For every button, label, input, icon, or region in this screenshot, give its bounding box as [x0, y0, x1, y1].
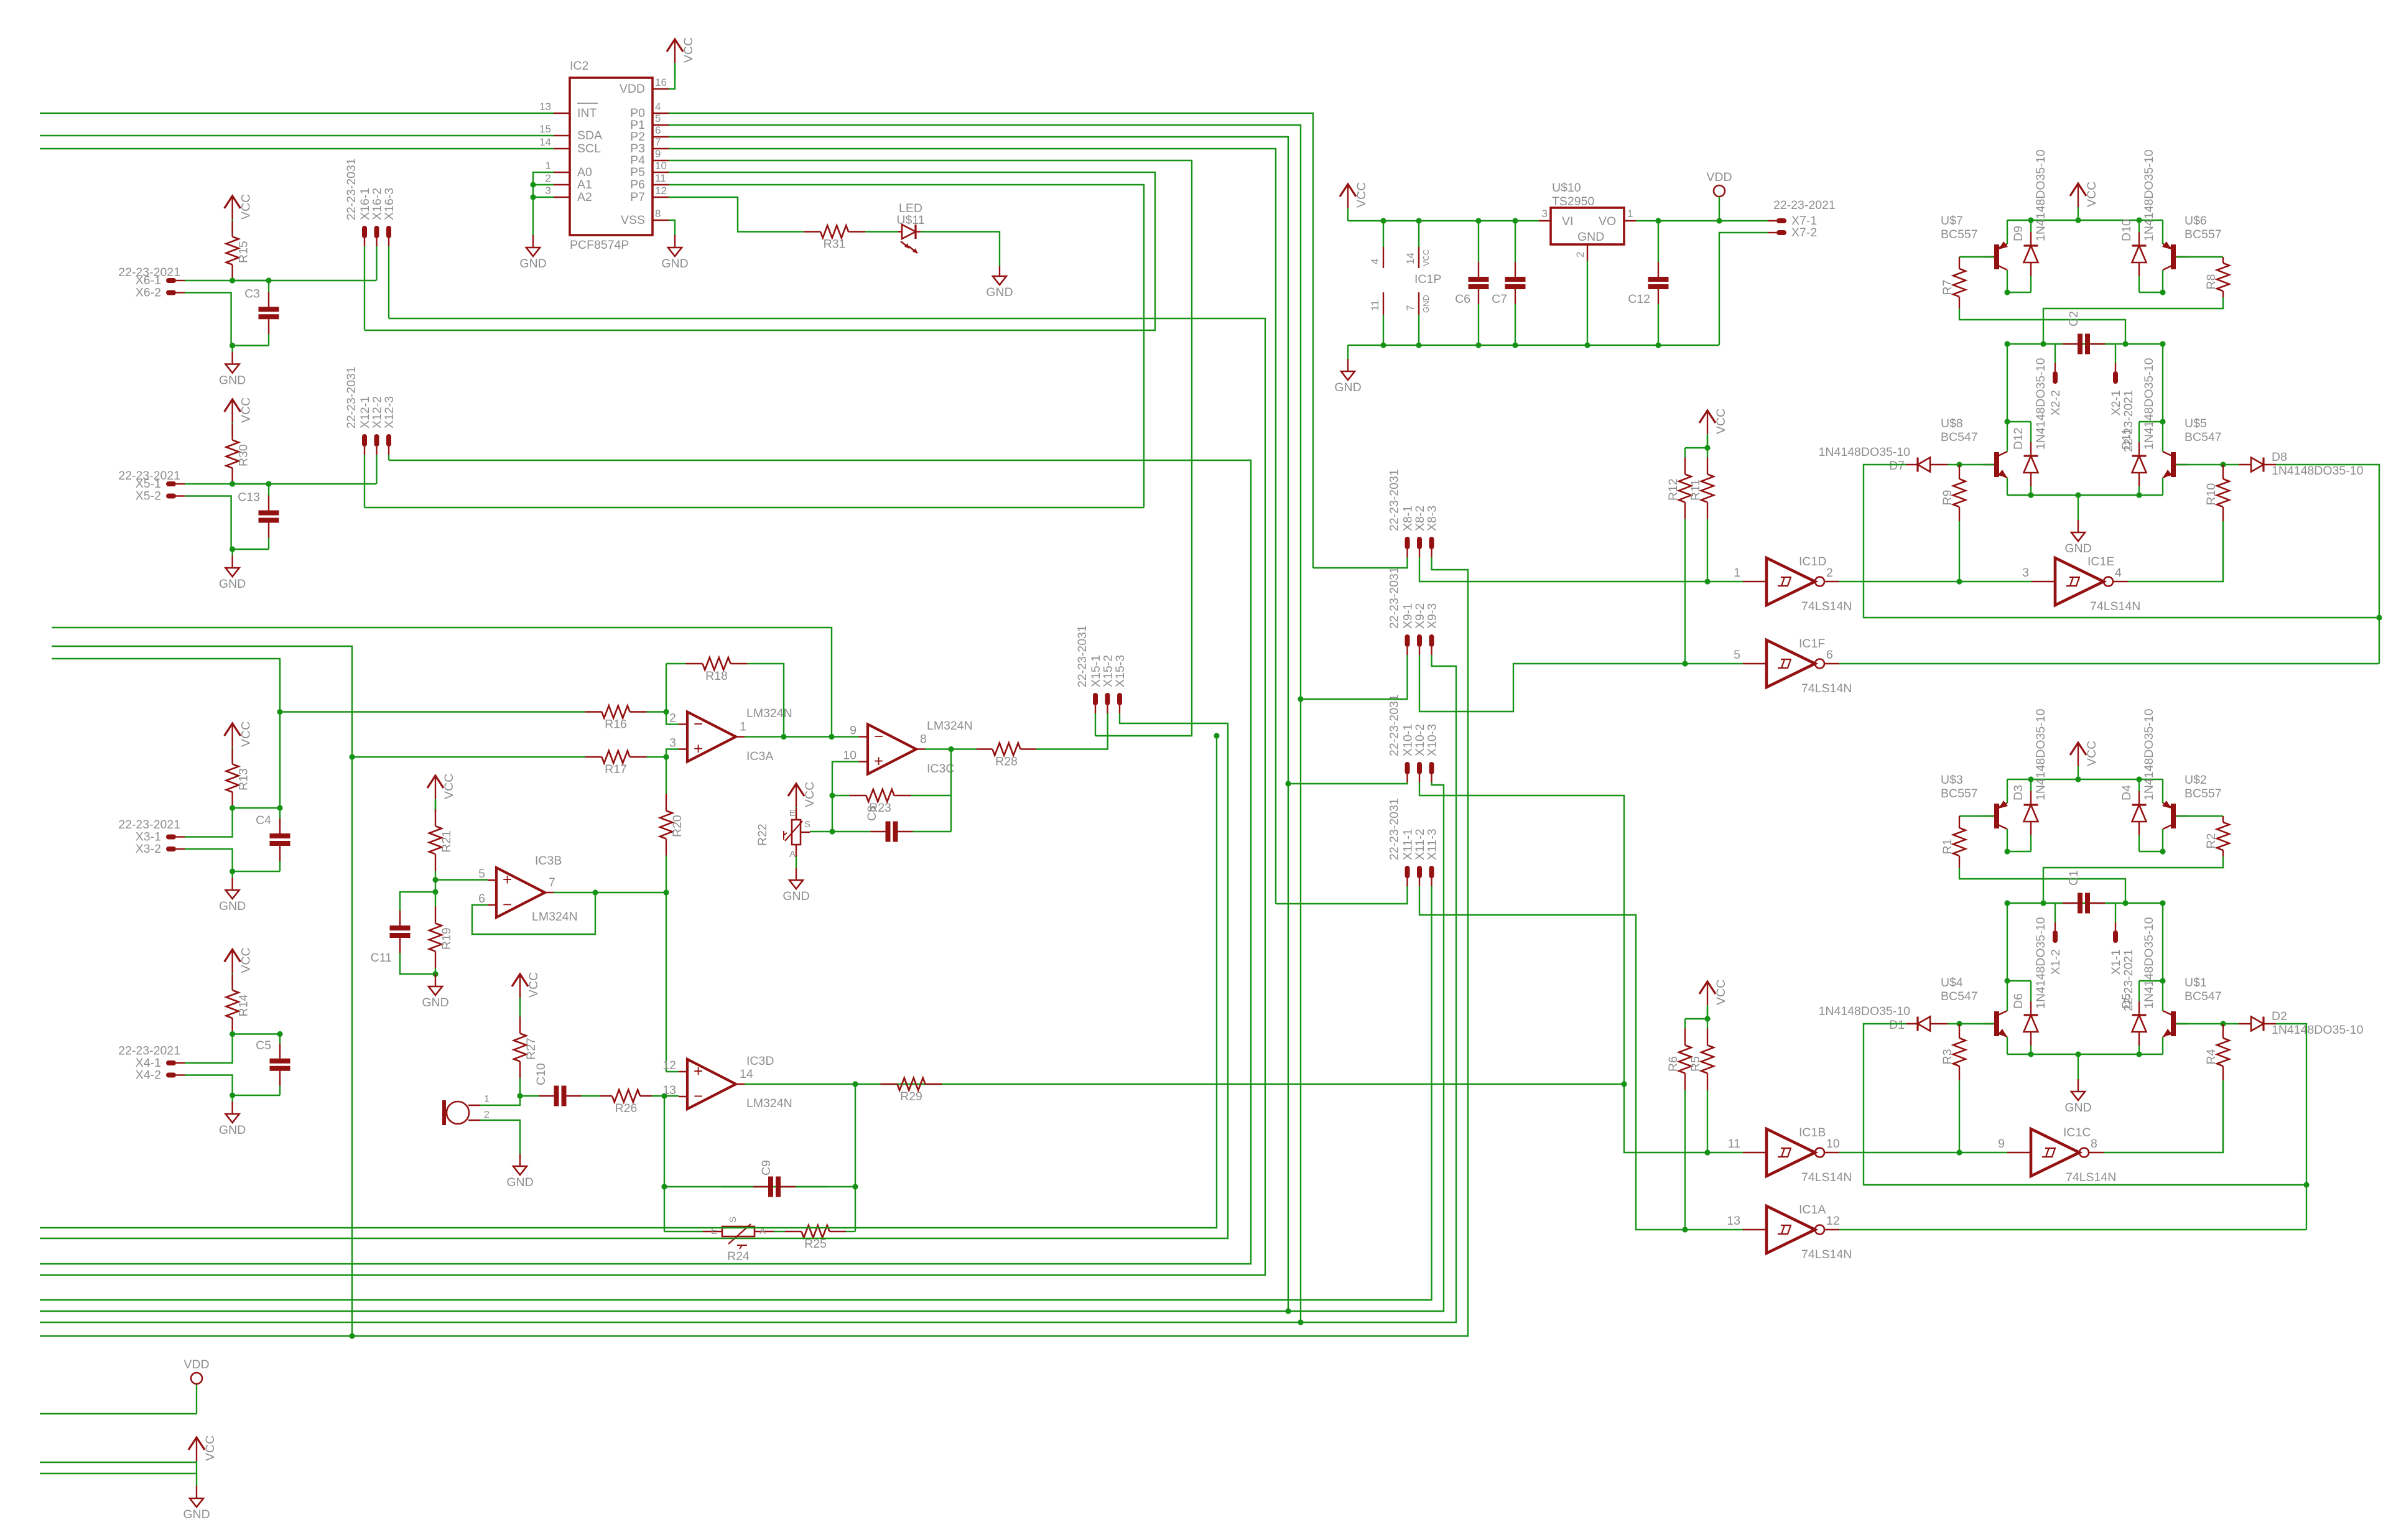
wire X3-2 to gnd: [185, 849, 233, 871]
svg-text:P5: P5: [630, 165, 645, 179]
wire X10-2 to IC1B: [1419, 782, 1743, 1153]
power VCC X4 block: [225, 950, 241, 962]
svg-text:−: −: [874, 727, 883, 746]
svg-text:C12: C12: [1628, 292, 1650, 306]
connector X15 pin X15-1: [1093, 693, 1098, 705]
svg-text:X7-2: X7-2: [1791, 226, 1817, 239]
connector X3-1: [166, 835, 176, 840]
svg-text:IC1C: IC1C: [2063, 1126, 2091, 1139]
wire R10 leg: [2222, 521, 2224, 582]
junction P1 X9-1: [1298, 696, 1303, 702]
junction R21 pin5: [432, 877, 438, 883]
junction bottom low rail: [2136, 1051, 2142, 1057]
connector X12 pin X12-3: [386, 434, 391, 447]
wire IC1A out: [1839, 1229, 2306, 1230]
svg-text:BC557: BC557: [2185, 228, 2222, 241]
svg-text:12: 12: [1826, 1214, 1840, 1228]
resistor R14: [226, 990, 239, 1018]
U$10 pin 1: [1624, 220, 1636, 221]
wire X9-2 to IC1F: [1419, 655, 1743, 712]
wire gnd rail: [1348, 345, 1719, 346]
svg-text:22-23-2021: 22-23-2021: [1773, 198, 1836, 212]
svg-text:C4: C4: [256, 814, 271, 827]
wire out col down: [855, 1084, 856, 1232]
capacitor C11: [390, 928, 411, 935]
resistor R12: [1679, 475, 1691, 503]
svg-text:D6: D6: [2012, 993, 2025, 1009]
svg-text:R25: R25: [804, 1237, 827, 1251]
ground GND top bridge: [2078, 495, 2079, 520]
wire R16 to in-: [647, 711, 666, 712]
svg-text:22-23-2031: 22-23-2031: [1388, 798, 1401, 860]
connector X2-2: [2055, 363, 2056, 371]
svg-text:1: 1: [740, 720, 746, 734]
transistor U$6 PNP: [2171, 244, 2176, 269]
junction R29 left: [852, 1081, 858, 1087]
junction bottom c2 r: [2160, 900, 2165, 906]
svg-text:R2: R2: [2204, 833, 2218, 849]
junction top rail D9 top: [2028, 217, 2033, 223]
wire R9 leg: [1959, 521, 1960, 582]
wire bottom U$1 emitter: [2162, 1037, 2163, 1054]
svg-text:U$5: U$5: [2185, 417, 2207, 430]
U$10 pin 2: [1587, 244, 1588, 261]
junction col566 bus: [349, 1333, 355, 1338]
junction R5 bottom: [1704, 1149, 1710, 1155]
wire top left col row: [2007, 292, 2031, 293]
junction X5 gnd node: [230, 546, 235, 552]
svg-text:5: 5: [655, 113, 661, 124]
junction top left col: [2004, 289, 2010, 295]
wire IC3C out: [925, 748, 977, 749]
resistor R21: [429, 826, 442, 854]
svg-text:14: 14: [1405, 253, 1416, 264]
svg-text:R4: R4: [2204, 1049, 2218, 1064]
wire C13 bottom to gnd node: [233, 549, 269, 550]
wire net SDA: [40, 135, 554, 136]
svg-text:8: 8: [655, 208, 661, 220]
connector X11 pin X11-2: [1417, 866, 1422, 878]
wire node to C5: [233, 1033, 280, 1034]
IC2 pin 13 INT: [554, 113, 570, 114]
junction A2: [530, 194, 536, 200]
wire bottom right col mid: [2162, 903, 2163, 981]
wire R4 leg: [2222, 1080, 2224, 1153]
ground GND LED: [999, 266, 1000, 276]
op IC2 block: [539, 59, 669, 252]
wire IC2 VDD to VCC: [669, 64, 675, 89]
svg-text:VCC: VCC: [803, 782, 817, 807]
connector X6-2: [166, 290, 176, 295]
power VCC X6 block: [225, 196, 241, 208]
svg-text:INT: INT: [577, 106, 597, 120]
svg-text:D10: D10: [2120, 219, 2134, 241]
svg-text:BC547: BC547: [2185, 430, 2222, 444]
svg-text:GND: GND: [519, 257, 546, 271]
junction bottom R4 top: [2220, 1021, 2226, 1026]
IC2 pin 12 P7: [652, 197, 669, 198]
svg-text:−: −: [694, 715, 703, 733]
svg-text:VCC: VCC: [442, 774, 456, 799]
ground GND IC2 VSS: [674, 230, 676, 235]
IC2 pin 15 SDA: [554, 135, 570, 136]
capacitor C4: [270, 836, 290, 843]
svg-text:7: 7: [1405, 305, 1416, 311]
svg-text:LM324N: LM324N: [746, 1097, 792, 1110]
connector X3-2: [166, 847, 176, 851]
svg-text:X16-3: X16-3: [383, 188, 396, 220]
svg-text:LM324N: LM324N: [532, 910, 578, 924]
wire pin5: [435, 879, 488, 880]
wire bottom base to d8: [2223, 1023, 2239, 1024]
wire C11 bottom: [400, 958, 435, 974]
junction bottom low rail: [2028, 1051, 2033, 1057]
IC2 pin 14 SCL: [554, 148, 570, 149]
svg-text:IC3A: IC3A: [746, 749, 773, 763]
junction top R10 top: [2220, 462, 2226, 467]
wire bottom U$2 base: [2176, 815, 2223, 817]
wire C11 branch top: [400, 892, 435, 906]
svg-text:VCC: VCC: [1421, 249, 1431, 266]
svg-text:VDD: VDD: [183, 1358, 209, 1371]
resistor R29: [898, 1078, 926, 1090]
svg-text:GND: GND: [422, 996, 448, 1009]
capacitor C6: [1469, 279, 1489, 287]
junction top low rail: [2075, 492, 2081, 498]
IC2 pin 4 P0: [652, 113, 669, 114]
junction C7 top: [1512, 218, 1518, 223]
svg-text:C2: C2: [2067, 311, 2081, 327]
svg-text:IC1P: IC1P: [1414, 272, 1441, 286]
svg-text:LM324N: LM324N: [927, 719, 973, 733]
svg-text:9: 9: [850, 724, 857, 738]
svg-text:2: 2: [1574, 252, 1586, 257]
IC1P pin 4: [1383, 221, 1384, 247]
svg-text:X4-2: X4-2: [136, 1069, 161, 1082]
svg-text:IC1E: IC1E: [2087, 555, 2114, 568]
connector X5-1: [166, 481, 176, 486]
ground GND X6 block: [231, 346, 233, 352]
svg-text:6: 6: [655, 124, 661, 136]
svg-text:VCC: VCC: [239, 947, 253, 973]
svg-text:IC1B: IC1B: [1799, 1126, 1826, 1139]
wire in+ jog: [666, 749, 679, 758]
capacitor C5: [270, 1061, 290, 1069]
connector X9 pin X9-2: [1417, 634, 1422, 647]
junction top rail D10 top: [2136, 217, 2142, 223]
svg-text:X12-3: X12-3: [383, 396, 396, 429]
trimmer R24: [722, 1227, 755, 1236]
IC2 pin 2 A1: [554, 184, 570, 185]
svg-text:IC1F: IC1F: [1799, 637, 1825, 651]
wire IC3B feedback loop: [472, 893, 595, 934]
junction R16 node: [277, 709, 282, 715]
wire node to C13: [233, 483, 269, 485]
diode D4: [2132, 805, 2147, 822]
wire X16-3 down: [388, 246, 389, 318]
wire C3 bottom to gnd node: [233, 345, 269, 346]
wire net X9-3: [40, 655, 1456, 1322]
svg-text:D1: D1: [1889, 1018, 1905, 1032]
svg-text:GND: GND: [1334, 381, 1361, 394]
power VCC R21: [427, 776, 443, 788]
junction IC3C out col: [948, 746, 954, 752]
svg-text:VCC: VCC: [239, 194, 253, 220]
connector X6-1: [166, 278, 176, 283]
capacitor C9: [771, 1177, 778, 1197]
wire net SCL: [40, 148, 554, 149]
resistor R4: [2217, 1038, 2229, 1066]
power VCC bottom bridge: [2070, 743, 2086, 755]
svg-text:A2: A2: [577, 190, 592, 204]
svg-text:1N4148DO35-10: 1N4148DO35-10: [2142, 358, 2156, 450]
svg-text:C8: C8: [865, 805, 879, 821]
wire net X15-3: [40, 713, 1228, 1238]
svg-text:U$3: U$3: [1941, 773, 1963, 787]
capacitor C10: [557, 1086, 564, 1106]
resistor R15: [226, 237, 239, 265]
svg-text:VCC: VCC: [2085, 741, 2099, 766]
wire top lower rail: [2007, 494, 2163, 496]
svg-text:VSS: VSS: [621, 213, 645, 227]
ground GND R22: [796, 856, 797, 868]
wire pin10 left: [832, 762, 859, 832]
wire R25 right: [846, 1231, 855, 1232]
junction C4 top: [277, 805, 282, 810]
svg-text:SDA: SDA: [577, 129, 602, 142]
svg-text:R10: R10: [2204, 483, 2218, 506]
diode D6: [2024, 1015, 2038, 1032]
wire bottom d7 feedback: [1864, 1024, 2306, 1185]
svg-text:VDD: VDD: [1706, 170, 1732, 184]
junction X6 node: [230, 277, 235, 283]
junction U$10 gnd rail: [1584, 342, 1590, 348]
wire net VDD line: [40, 1413, 197, 1414]
junction pin13 node: [661, 1093, 667, 1098]
svg-text:GND: GND: [1421, 295, 1431, 313]
transistor U$2 PNP: [2171, 804, 2176, 828]
svg-text:−: −: [503, 895, 512, 914]
power VCC IC2: [667, 39, 683, 52]
wire R18 left: [666, 663, 680, 664]
resistor R18: [703, 657, 731, 670]
wire X12-1 net: [365, 507, 1144, 508]
wire X3-1 to node: [185, 808, 233, 837]
svg-text:D9: D9: [2012, 226, 2025, 241]
wire net bus row1974: [40, 736, 1217, 1228]
svg-text:+: +: [874, 752, 883, 771]
wire top right col row: [2139, 292, 2163, 293]
svg-text:+: +: [694, 740, 703, 758]
wire top top rail: [2007, 220, 2163, 221]
junction R19 bottom: [432, 971, 438, 976]
svg-text:R27: R27: [524, 1037, 538, 1060]
svg-text:IC3D: IC3D: [746, 1054, 774, 1068]
svg-text:GND: GND: [986, 285, 1013, 299]
svg-text:U$1: U$1: [2185, 976, 2207, 990]
wire mic pin2: [480, 1120, 520, 1148]
resistor R2: [2217, 822, 2229, 850]
junction R11 bottom: [1704, 578, 1710, 584]
wire U$10 gnd: [1587, 261, 1588, 345]
wire net X16-3: [40, 318, 1265, 1275]
wire X16-1 down: [364, 246, 365, 330]
connector X11 pin X11-3: [1429, 866, 1434, 878]
wire bottom U$1 collector: [2162, 981, 2163, 1011]
power VCC R27: [512, 974, 528, 986]
transistor U$7 PNP: [1994, 244, 1999, 269]
svg-text:BC547: BC547: [1941, 430, 1978, 444]
junction bottom d12 l: [2004, 978, 2010, 983]
svg-text:2: 2: [484, 1110, 490, 1120]
wire bottom d11 row: [2139, 980, 2163, 981]
resistor R7: [1953, 269, 1966, 297]
resistor R5: [1701, 1046, 1714, 1074]
junction IC3D out to X10 col: [1621, 1081, 1627, 1087]
junction top low rail: [2136, 492, 2142, 498]
svg-text:U$7: U$7: [1941, 214, 1963, 228]
svg-text:4: 4: [1369, 259, 1381, 264]
svg-text:U$2: U$2: [2185, 773, 2207, 787]
junction top d11 r: [2160, 419, 2165, 424]
svg-text:R16: R16: [605, 718, 627, 731]
svg-text:9: 9: [1998, 1137, 2005, 1151]
svg-text:X2-1: X2-1: [2109, 390, 2123, 415]
wire R6 leg: [1684, 1100, 1686, 1230]
wire top left col mid: [2007, 344, 2008, 422]
capacitor C2: [2080, 334, 2087, 355]
wire net X11-3: [40, 886, 1432, 1300]
wire X2-2 stem: [2055, 344, 2056, 363]
capacitor C1: [2080, 893, 2087, 914]
power VCC R5 R6: [1699, 981, 1716, 994]
connector X10 pin X10-2: [1417, 762, 1422, 774]
connector X7-1: [1776, 218, 1786, 223]
capacitor C7: [1505, 279, 1526, 287]
junction X3 node: [230, 805, 235, 810]
wire bottom left col mid: [2007, 903, 2008, 981]
svg-text:R13: R13: [237, 768, 251, 791]
junction VDD rail: [1716, 218, 1722, 223]
svg-text:R26: R26: [615, 1102, 638, 1115]
junction bottom rail VCC: [2075, 776, 2081, 782]
wire IC1D out to IC1E: [1839, 581, 2031, 582]
svg-text:R21: R21: [440, 830, 453, 853]
svg-text:D2: D2: [2272, 1009, 2287, 1023]
connector X4-2: [166, 1073, 176, 1078]
svg-text:10: 10: [655, 160, 667, 172]
svg-text:P7: P7: [630, 190, 645, 204]
transistor U$8 NPN: [1994, 452, 1999, 477]
diode D11: [2132, 456, 2147, 473]
svg-text:X15-3: X15-3: [1113, 655, 1127, 687]
wire R11 R12 vcc stem: [1707, 435, 1708, 448]
connector X15 pin X15-2: [1105, 693, 1110, 705]
svg-text:GND: GND: [2064, 1101, 2091, 1115]
junction X4 gnd node: [230, 1092, 235, 1098]
wire R23 right: [911, 796, 951, 832]
wire bottom U$3 collector: [2007, 829, 2008, 851]
IC1P pin 14: [1418, 221, 1419, 247]
junction bottom left col: [2004, 848, 2010, 854]
junction C12 bottom: [1655, 342, 1661, 348]
wire X1-1 stem: [2115, 903, 2116, 922]
connector X15 pin X15-3: [1117, 693, 1122, 705]
svg-text:R20: R20: [671, 815, 684, 837]
wire R11 R12 branch: [1685, 447, 1707, 448]
wire X7-2 to gnd rail: [1719, 233, 1768, 345]
wire R5 R6 branch: [1685, 1018, 1707, 1019]
svg-text:S: S: [804, 819, 810, 830]
svg-text:1N4148DO35-10: 1N4148DO35-10: [2034, 917, 2048, 1009]
connector X16 pin X16-3: [386, 226, 391, 238]
wire R17 to in+: [647, 756, 666, 758]
svg-text:IC1D: IC1D: [1799, 555, 1826, 568]
inverter IC1F: [1767, 640, 1815, 687]
wire net P5: [365, 172, 1155, 330]
transistor U$4 NPN: [1994, 1011, 1999, 1036]
wire IC1B out to IC1C: [1839, 1152, 2007, 1153]
svg-text:5: 5: [1734, 648, 1740, 662]
connector X8 pin X8-1: [1405, 537, 1410, 549]
wire C4 bottom to gnd node: [233, 871, 280, 872]
svg-text:R29: R29: [900, 1090, 922, 1103]
diode D8: [2251, 458, 2264, 472]
wire net P0: [669, 113, 1313, 568]
svg-text:74LS14N: 74LS14N: [1801, 1248, 1852, 1261]
junction bottom right col: [2160, 848, 2165, 854]
wire R17 line: [352, 756, 585, 758]
junction C13 top: [266, 481, 271, 486]
svg-text:A: A: [789, 849, 796, 860]
svg-text:VCC: VCC: [239, 397, 253, 423]
wire net INT: [40, 113, 554, 114]
svg-text:R14: R14: [237, 995, 251, 1017]
junction C10 node: [517, 1093, 522, 1098]
svg-text:VCC: VCC: [1714, 409, 1728, 434]
svg-text:X1-1: X1-1: [2109, 949, 2123, 975]
svg-text:7: 7: [549, 876, 555, 889]
svg-text:D12: D12: [2012, 427, 2025, 450]
IC2 pin 11 P6: [652, 184, 669, 185]
junction top c2 l: [2004, 341, 2010, 346]
svg-text:GND: GND: [661, 257, 688, 271]
junction C8 left: [829, 828, 835, 834]
junction R12 bottom: [1682, 661, 1688, 666]
svg-text:X6-2: X6-2: [136, 286, 161, 300]
svg-text:X10-3: X10-3: [1426, 724, 1439, 756]
wire X5-2 to gnd: [185, 496, 231, 550]
svg-text:VI: VI: [1562, 215, 1573, 228]
junction C7 bottom: [1512, 342, 1518, 348]
wire X4-1 to node: [185, 1034, 233, 1064]
power VCC top bridge: [2070, 183, 2086, 196]
svg-text:VCC: VCC: [2085, 182, 2099, 207]
svg-text:GND: GND: [782, 889, 809, 903]
power VCC X5 block: [225, 399, 241, 412]
wire C5 bottom to gnd node: [233, 1095, 280, 1096]
wire net GND line: [40, 1473, 197, 1474]
IC2 pin 10 P5: [652, 172, 669, 173]
junction R9 inv row: [1956, 578, 1962, 584]
svg-text:A1: A1: [577, 178, 592, 192]
junction C5 top: [277, 1031, 282, 1037]
svg-text:22-23-2031: 22-23-2031: [1388, 469, 1401, 531]
svg-text:R3: R3: [1941, 1049, 1954, 1065]
junction P2 bus: [1285, 1308, 1291, 1314]
wire IC3D out: [745, 1083, 1624, 1085]
svg-text:D7: D7: [1889, 459, 1905, 473]
